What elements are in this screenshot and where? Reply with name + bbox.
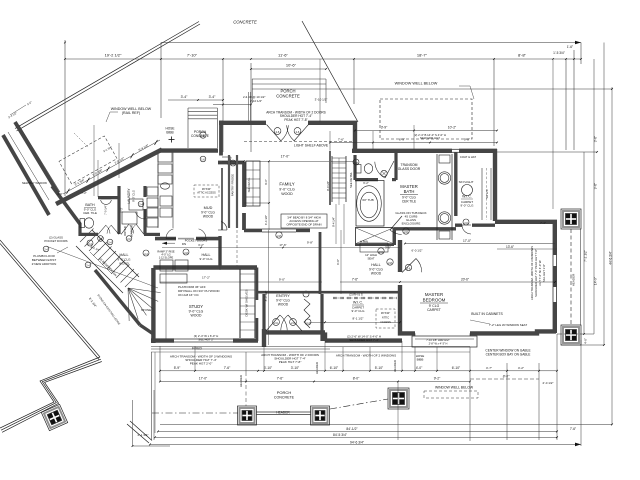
svg-text:7'-10": 7'-10" <box>187 53 198 58</box>
svg-text:2-6: 2-6 <box>274 321 278 325</box>
tick <box>342 370 344 372</box>
svg-text:2-4: 2-4 <box>306 322 310 325</box>
svg-text:5'-4 1/4": 5'-4 1/4" <box>138 143 150 152</box>
entry double doors <box>266 315 280 331</box>
svg-text:17'-0": 17'-0" <box>281 155 290 159</box>
svg-text:8'-1 1/2": 8'-1 1/2" <box>353 317 364 321</box>
stair to basement main <box>80 229 94 243</box>
svg-text:DN: DN <box>182 242 186 246</box>
column C6 walkway <box>41 404 67 430</box>
wall entry east upper <box>319 232 322 294</box>
svg-text:7'-8 1/2": 7'-8 1/2" <box>114 156 126 165</box>
skylight wic circle <box>462 185 473 196</box>
wing inner dim lines <box>65 195 155 197</box>
porch slab front edge <box>151 346 470 348</box>
vanity end rects <box>439 155 450 163</box>
svg-text:7'-4": 7'-4" <box>540 221 546 225</box>
svg-text:18'-7": 18'-7" <box>417 53 428 58</box>
dim line top horizontal y42 <box>161 42 581 44</box>
dim tie right y152 <box>497 151 597 153</box>
roof diagonal ridge right <box>302 21 358 122</box>
tick <box>469 370 471 372</box>
svg-text:9'-0": 9'-0" <box>336 259 340 265</box>
dim vert x581 bottom <box>580 340 582 446</box>
door circle stair <box>43 246 49 252</box>
svg-text:7'-2": 7'-2" <box>81 191 86 195</box>
dim line mbr2 <box>405 243 555 245</box>
roof diagonal line upper-left <box>15 22 199 129</box>
window well dashed bottom <box>424 391 478 398</box>
wall south wing to stair <box>144 233 160 236</box>
hall door circle <box>387 259 393 265</box>
svg-text:9'-6": 9'-6" <box>264 179 268 185</box>
svg-text:3'-9": 3'-9" <box>381 126 388 130</box>
wall mbath east vanity x454 <box>454 152 457 216</box>
wing ticks <box>67 189 70 194</box>
svg-text:3'-6": 3'-6" <box>594 136 598 142</box>
tick <box>313 381 315 383</box>
family doors double <box>267 125 282 142</box>
dim row top y59 <box>65 58 581 60</box>
attic access dashed mud <box>194 185 219 197</box>
door circle closet <box>305 319 311 325</box>
svg-text:SILL HGT 2": SILL HGT 2" <box>198 337 214 341</box>
svg-text:3'-4": 3'-4" <box>209 95 217 99</box>
stair dim diagonal <box>46 246 158 288</box>
svg-text:CENTER BOX BAY ON GABLE: CENTER BOX BAY ON GABLE <box>486 353 531 357</box>
svg-text:STUDY: STUDY <box>189 304 203 309</box>
svg-text:HALL: HALL <box>371 263 381 267</box>
laundry wall <box>143 186 146 197</box>
svg-text:BIBB: BIBB <box>166 131 173 135</box>
family note box <box>281 214 327 228</box>
sink 1 <box>438 172 450 184</box>
tub master bath <box>357 186 382 222</box>
svg-text:WOOD: WOOD <box>371 272 382 276</box>
svg-text:SH & R: SH & R <box>485 189 489 198</box>
svg-text:9'-8": 9'-8" <box>464 138 470 142</box>
svg-text:2-6: 2-6 <box>464 222 468 225</box>
dim interior verticals top <box>329 131 331 150</box>
door circle mbr <box>405 264 411 270</box>
family dim vert x269 <box>268 161 270 230</box>
dim ext vertical x65 <box>64 40 66 196</box>
porch steps left <box>188 107 217 109</box>
header beam bottom <box>256 411 311 413</box>
pantry strip wall <box>228 155 230 228</box>
master shower <box>356 228 394 245</box>
svg-text:9'-6": 9'-6" <box>594 183 598 189</box>
dim tick <box>250 58 252 60</box>
corridor dim line <box>10 105 26 115</box>
svg-text:3'-1 3/4": 3'-1 3/4" <box>74 178 86 187</box>
svg-text:7'-2 1/2": 7'-2 1/2" <box>584 250 588 262</box>
svg-text:BEDROOM: BEDROOM <box>423 298 446 303</box>
wing west diagonal wall <box>52 186 80 224</box>
svg-text:17'-0": 17'-0" <box>463 239 471 243</box>
svg-text:9'-0" CLG: 9'-0" CLG <box>461 204 475 208</box>
svg-text:9'-0 1/4": 9'-0 1/4" <box>326 181 330 191</box>
wall study west <box>151 268 155 343</box>
wall hall east x220 <box>218 236 221 268</box>
svg-text:2-6: 2-6 <box>404 230 408 234</box>
svg-text:ACCESS: ACCESS <box>380 320 391 324</box>
sink 2 <box>438 212 450 224</box>
tick <box>257 370 259 372</box>
bay window seat master bedroom <box>412 336 477 347</box>
svg-text:SILL HGT 1'-6": SILL HGT 1'-6" <box>542 264 546 282</box>
wing main diagonal wall <box>56 150 162 205</box>
svg-text:PORCH: PORCH <box>277 390 292 395</box>
svg-text:9'-8": 9'-8" <box>307 241 313 245</box>
door mud <box>218 229 227 231</box>
dim tick <box>580 58 582 60</box>
vanity master bath counter <box>436 154 438 240</box>
light shelf dashed <box>244 141 354 143</box>
porch edge right <box>580 229 582 325</box>
svg-text:MUD: MUD <box>204 206 213 210</box>
svg-text:8'-8": 8'-8" <box>518 53 527 58</box>
svg-text:9'-4 1/4": 9'-4 1/4" <box>332 217 336 227</box>
dim tick <box>552 58 554 60</box>
dim ext vertical x354 <box>353 59 355 104</box>
svg-text:17'-2": 17'-2" <box>202 276 210 280</box>
double door bath 2 <box>121 224 129 234</box>
svg-text:9'-0" CLG: 9'-0" CLG <box>279 188 295 192</box>
porch dashed vert <box>245 372 247 406</box>
svg-text:SKYLIGHT: SKYLIGHT <box>459 180 474 184</box>
svg-text:(2) BASEMENT: (2) BASEMENT <box>98 257 115 274</box>
dim ext vertical x161 <box>160 43 162 119</box>
dim tie right y334 <box>557 333 594 335</box>
svg-text:COAT & HAT: COAT & HAT <box>460 155 477 159</box>
interior verticals center <box>268 230 270 345</box>
svg-text:2'-6": 2'-6" <box>57 192 62 196</box>
svg-text:44'-6 3/4": 44'-6 3/4" <box>609 251 613 264</box>
bath room walls <box>98 196 119 199</box>
svg-text:17'-0": 17'-0" <box>199 377 208 381</box>
svg-text:CER. TILE: CER. TILE <box>83 211 97 215</box>
svg-text:5'-0": 5'-0" <box>26 100 33 106</box>
svg-text:2-6: 2-6 <box>379 250 383 254</box>
svg-text:2'-0 1/2": 2'-0 1/2" <box>543 381 554 385</box>
wall family west top corner <box>218 161 244 165</box>
svg-text:9'-0" CLG: 9'-0" CLG <box>132 190 136 202</box>
wall hall north y238 <box>155 237 176 241</box>
wall stair east <box>140 325 153 334</box>
walkway elbow band <box>0 357 100 428</box>
hall seat rect <box>360 243 388 252</box>
wall wic2 north <box>325 291 398 294</box>
dim 13-6 right <box>497 248 557 250</box>
svg-text:19'-2 1/2": 19'-2 1/2" <box>105 53 122 58</box>
svg-text:8'-3 1/2": 8'-3 1/2" <box>264 291 268 302</box>
misc circles doors <box>200 132 206 138</box>
door study pocket <box>178 238 194 240</box>
header dash-dot right <box>330 399 388 409</box>
svg-text:11'-6": 11'-6" <box>278 53 288 58</box>
svg-text:WINDOW WELL BELOW: WINDOW WELL BELOW <box>395 82 438 86</box>
header dash-dot left <box>152 412 238 414</box>
window east wall 1 <box>552 255 554 266</box>
wall study north <box>153 265 257 269</box>
svg-text:17'-6": 17'-6" <box>279 243 286 247</box>
svg-text:STONE: STONE <box>141 308 151 312</box>
kitchen family boundary <box>244 202 269 204</box>
svg-text:ATTIC: ATTIC <box>382 316 389 320</box>
tick <box>263 370 265 372</box>
svg-text:CONCRETE: CONCRETE <box>274 396 295 400</box>
door circle laundry <box>138 201 144 207</box>
door tag toilet <box>381 170 387 176</box>
study east outer wall <box>256 268 259 301</box>
wall entry east <box>320 294 323 341</box>
dim vert x154 <box>153 390 155 440</box>
svg-text:(RAIL REF): (RAIL REF) <box>122 111 140 115</box>
dim tick <box>353 58 355 60</box>
svg-text:10'-2": 10'-2" <box>448 126 457 130</box>
wall south wic step <box>495 220 557 224</box>
door porch to hall <box>222 156 231 158</box>
svg-text:PANTRY FRIDGE: PANTRY FRIDGE <box>231 174 235 197</box>
closet shelves wic east <box>481 168 483 220</box>
wall east master bedroom <box>553 220 557 255</box>
svg-text:CUT 7'-4" SF 4'-0" W: CUT 7'-4" SF 4'-0" W <box>538 260 542 286</box>
wall east wic <box>493 149 497 221</box>
wall south mbr left of bay <box>400 285 415 333</box>
svg-text:36"X30": 36"X30" <box>381 311 390 315</box>
dim tick <box>64 58 66 60</box>
svg-text:2'-10 1/2": 2'-10 1/2" <box>250 99 262 103</box>
svg-text:6'-10": 6'-10" <box>452 366 461 370</box>
svg-text:8'-0": 8'-0" <box>353 377 360 381</box>
wall toilet room mbath <box>353 155 356 180</box>
door circles entry <box>273 319 280 326</box>
circle tag entry <box>303 291 309 297</box>
stair winder fan <box>128 288 161 293</box>
svg-text:6'-10": 6'-10" <box>330 366 339 370</box>
svg-text:84'-5 3/4": 84'-5 3/4" <box>333 433 348 437</box>
door master bedroom <box>402 259 416 273</box>
wall wic south <box>455 223 462 226</box>
leader <box>110 111 118 113</box>
svg-text:9'-2 1/4": 9'-2 1/4" <box>90 245 101 252</box>
svg-text:9'-0" CLG: 9'-0" CLG <box>200 257 214 261</box>
column C5 bottom right <box>388 388 409 409</box>
svg-text:2-6: 2-6 <box>296 130 300 134</box>
dim ext vertical x223 <box>222 59 224 152</box>
dim vert x594 <box>593 59 595 334</box>
wall hall east upper <box>398 240 402 272</box>
dim tick <box>222 58 224 60</box>
svg-text:1-8: 1-8 <box>354 162 358 165</box>
dim ext vertical x251 <box>250 63 252 152</box>
porch slab edge lower <box>252 88 612 90</box>
svg-text:HEADER: HEADER <box>239 375 243 387</box>
svg-text:BUILT IN CABINETS: BUILT IN CABINETS <box>471 312 503 316</box>
double door bath 1 <box>98 225 106 234</box>
dim row y67 10-6 <box>251 68 326 70</box>
tick <box>194 370 196 372</box>
svg-text:60" TUB: 60" TUB <box>362 198 373 202</box>
svg-text:7'-2" LEG W/ WINDOW SEAT: 7'-2" LEG W/ WINDOW SEAT <box>489 323 528 327</box>
door circle mbath <box>403 228 409 234</box>
tick <box>245 381 247 383</box>
dim 3-9 row <box>355 130 497 132</box>
dim tick <box>565 58 567 60</box>
hose bibb symbol <box>171 137 173 143</box>
stair to basement family <box>331 156 333 202</box>
door circle porch <box>230 160 236 166</box>
svg-text:HEADER: HEADER <box>276 411 290 415</box>
walkway porch connector <box>130 421 152 441</box>
svg-text:GLASS DOOR: GLASS DOOR <box>398 167 421 171</box>
svg-text:7'-10 3/8" HDR HGT: 7'-10 3/8" HDR HGT <box>426 338 450 342</box>
bifold closet entry <box>304 299 310 328</box>
svg-text:3'-2": 3'-2" <box>198 243 204 247</box>
dim row y141 <box>330 142 497 144</box>
wall study front <box>151 338 174 342</box>
svg-text:PEAK HGT 7'-8": PEAK HGT 7'-8" <box>279 360 302 364</box>
svg-text:2-8: 2-8 <box>201 134 205 138</box>
wall stair south diag <box>95 270 140 325</box>
svg-text:2-6: 2-6 <box>291 321 295 325</box>
svg-text:OPPOSITE END OF DRAIN: OPPOSITE END OF DRAIN <box>286 223 321 227</box>
svg-text:5'-3": 5'-3" <box>120 207 124 212</box>
tick <box>401 370 403 372</box>
dim ext vertical x581 <box>580 43 582 65</box>
header dashed right <box>570 229 572 325</box>
svg-text:ON 2x8 16" OC: ON 2x8 16" OC <box>178 293 200 297</box>
svg-text:SEAT: SEAT <box>367 256 374 260</box>
tick <box>159 370 161 372</box>
tick <box>397 381 399 383</box>
cabinet rects j&j <box>147 187 158 196</box>
column C2 right lower <box>561 325 581 345</box>
svg-text:WOOD: WOOD <box>278 303 289 307</box>
svg-text:2-4: 2-4 <box>144 253 148 256</box>
svg-text:HEADER: HEADER <box>393 360 397 372</box>
leader <box>459 85 470 87</box>
svg-text:94'-6 3/4": 94'-6 3/4" <box>350 440 365 444</box>
kitchen counter line <box>172 150 174 228</box>
wall wic top <box>459 149 497 153</box>
svg-text:WASHER: WASHER <box>130 225 134 237</box>
svg-text:2-8: 2-8 <box>231 163 235 166</box>
door arcs hall top <box>196 238 206 240</box>
hall dim line <box>160 281 264 283</box>
svg-text:FAMILY: FAMILY <box>279 182 294 187</box>
svg-text:CONCRETE: CONCRETE <box>233 20 257 25</box>
svg-text:2-8: 2-8 <box>388 261 392 265</box>
wing dim line parallel <box>63 140 160 194</box>
tick <box>414 370 416 372</box>
family dim line y161 <box>222 160 354 162</box>
attic access wic2 <box>376 309 395 328</box>
svg-text:6'-0 1/2": 6'-0 1/2" <box>412 249 423 253</box>
svg-text:7'-6": 7'-6" <box>352 278 358 282</box>
dim tick <box>573 58 575 60</box>
dim row walkway <box>133 445 171 447</box>
svg-text:3'-10": 3'-10" <box>291 366 300 370</box>
dim row y370 <box>160 370 470 372</box>
window well dashed wing <box>59 136 117 184</box>
wall south master bedroom <box>470 331 556 333</box>
svg-text:1:12 SLOPE: 1:12 SLOPE <box>159 256 174 260</box>
svg-text:BIBB: BIBB <box>417 358 424 362</box>
svg-text:4'-7": 4'-7" <box>486 366 492 370</box>
svg-text:2'-8" W x 4'-3" H: 2'-8" W x 4'-3" H <box>429 342 448 346</box>
dim vert x604 <box>603 43 605 346</box>
toilet bath <box>80 219 85 228</box>
ext pair x249 <box>248 92 250 122</box>
corridor wall upper <box>15 122 58 193</box>
svg-text:9'-0" CLG: 9'-0" CLG <box>352 309 366 313</box>
svg-text:1'-5 3/4": 1'-5 3/4" <box>553 51 565 55</box>
svg-text:FIXED: FIXED <box>192 347 203 351</box>
wall hall between study and entry <box>257 291 325 294</box>
corridor inner lines <box>19 125 60 192</box>
svg-text:SEE DETAIL: SEE DETAIL <box>247 177 251 192</box>
svg-text:CER TILE: CER TILE <box>402 200 416 204</box>
dim line y104 <box>213 104 251 106</box>
svg-text:7'-6": 7'-6" <box>224 366 231 370</box>
svg-text:2-8: 2-8 <box>277 234 281 238</box>
door circle hall <box>183 249 189 255</box>
column C1 right upper <box>561 209 581 229</box>
wall entry front <box>264 330 325 334</box>
svg-text:ENCLOSURE: ENCLOSURE <box>402 222 421 226</box>
svg-text:CONCRETE: CONCRETE <box>276 94 300 99</box>
dim tick <box>160 58 162 60</box>
dim row right y370 <box>470 370 557 372</box>
wall top right segment <box>308 123 355 151</box>
wall master bath top <box>352 149 452 153</box>
kitchen island <box>246 161 260 206</box>
svg-text:ATTIC ACCESS: ATTIC ACCESS <box>197 191 216 195</box>
dashed dim 8-0 <box>470 378 539 380</box>
mud cabinets <box>160 260 173 271</box>
porch slab edge 2 <box>151 351 470 353</box>
svg-text:3'-0": 3'-0" <box>385 246 391 250</box>
svg-text:2-6: 2-6 <box>276 130 280 134</box>
svg-text:NEW HDR HGT: NEW HDR HGT <box>420 136 440 140</box>
svg-text:SHOULDER HGT 7'-4": SHOULDER HGT 7'-4" <box>349 338 378 342</box>
svg-text:DESK W/ SHELVES: DESK W/ SHELVES <box>245 289 249 316</box>
svg-text:SHOULDER HGT 7'-4" PEAK HGT 7: SHOULDER HGT 7'-4" PEAK HGT 7'-8" <box>534 249 538 297</box>
svg-text:1'-6": 1'-6" <box>567 45 573 49</box>
svg-text:10'-6": 10'-6" <box>286 63 297 68</box>
svg-text:8'-0": 8'-0" <box>503 375 510 379</box>
dim line mbr <box>340 281 555 283</box>
wall porch east x221 <box>219 121 223 156</box>
svg-text:POCKET DOORS: POCKET DOORS <box>44 239 67 243</box>
bath south wall <box>78 223 81 236</box>
svg-text:PEAK HGT 7'-8": PEAK HGT 7'-8" <box>284 118 307 122</box>
hall dim line y243 <box>162 247 400 249</box>
closet rod dashed wic2 <box>333 297 397 299</box>
kitchen cabinets west <box>158 152 172 162</box>
svg-text:4'-0": 4'-0" <box>416 366 423 370</box>
study bookshelf wall east <box>239 269 241 338</box>
svg-text:HALL: HALL <box>120 253 129 257</box>
stair arrow <box>90 252 112 274</box>
svg-text:3'-4": 3'-4" <box>181 95 189 99</box>
svg-text:5'-9": 5'-9" <box>174 366 181 370</box>
porch side edges <box>251 79 253 103</box>
wall family east stair <box>329 151 331 205</box>
tick <box>159 381 161 383</box>
